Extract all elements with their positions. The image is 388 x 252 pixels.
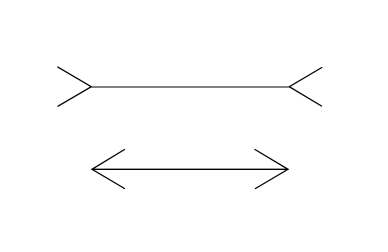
top-left outward fins (58, 67, 92, 106)
bottom-right arrowhead (255, 150, 288, 189)
bottom-left arrowhead (92, 150, 125, 189)
bottom shaft line (double-headed arrow) (92, 168, 288, 170)
top-right outward fins (289, 68, 322, 107)
top shaft line (fins-out figure) (91, 86, 289, 88)
